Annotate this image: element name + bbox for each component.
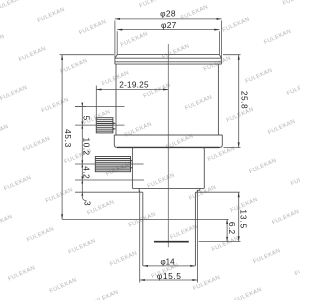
- wire feature line y180: [75, 179, 144, 181]
- svg-text:φ28: φ28: [160, 8, 176, 18]
- dimension phi15.5: [140, 279, 198, 281]
- 45.3 arrows: [61, 55, 63, 60]
- wire lip right: [197, 188, 200, 192]
- wire tube right edge: [194, 192, 196, 266]
- wire cap bottom: [115, 63, 222, 65]
- 25.8 arrows: [238, 55, 240, 60]
- pin1 crimp arrows: [113, 122, 116, 130]
- svg-text:3: 3: [83, 201, 93, 206]
- wire cap chamfer left: [115, 55, 117, 59]
- svg-text:25.8: 25.8: [240, 91, 250, 109]
- transistor pin1 hatched terminal: [96, 118, 113, 133]
- wire flange left: [114, 135, 117, 147]
- svg-text:6.2: 6.2: [227, 222, 237, 235]
- wire lip-bottom left extension: [75, 191, 139, 193]
- svg-text:φ14: φ14: [160, 257, 175, 266]
- svg-text:10.2: 10.2: [81, 138, 91, 156]
- 13.5 arrows: [238, 192, 240, 197]
- wire body left edge: [115, 64, 117, 135]
- svg-text:φ27: φ27: [161, 20, 177, 30]
- wire box left: [132, 147, 134, 188]
- dimension 25.8: [238, 55, 240, 148]
- dimension phi14 line: [143, 265, 196, 267]
- dimension 6.2: [226, 219, 228, 241]
- node pin2 centerline: [75, 163, 144, 165]
- dimension phi28: [115, 18, 222, 20]
- wire box bottom: [132, 187, 204, 189]
- dimension 13.5: [238, 192, 240, 241]
- wire internal line B across tube with extensions: [62, 218, 229, 220]
- phi27 arrows: [117, 29, 122, 31]
- wire cap left edge: [114, 58, 116, 64]
- dimension 45.3: [61, 55, 63, 220]
- dimension phi27: [117, 29, 219, 31]
- wire dark internal bore line: [154, 241, 189, 243]
- wire cap seam2: [115, 61, 222, 63]
- wire flange top: [114, 134, 222, 136]
- wire cap top face: [117, 54, 219, 56]
- phi28 arrows: [115, 18, 120, 20]
- svg-text:4.2: 4.2: [81, 166, 91, 179]
- left stack arrows: [81, 103, 83, 107]
- left stack ticks: [75, 106, 86, 108]
- phi15.5 arrows: [140, 279, 145, 281]
- wire lip bottom left seg: [139, 191, 143, 193]
- wire cap seam1: [115, 57, 221, 59]
- wire cap right edge: [221, 58, 223, 64]
- node pin1 centerline: [75, 124, 125, 126]
- wire box right: [203, 147, 205, 188]
- wire flange right: [220, 135, 223, 147]
- phi14 arrows: [143, 265, 148, 267]
- wire lip left: [138, 188, 140, 192]
- wire body right edge: [217, 64, 219, 135]
- wire tube left edge: [142, 192, 144, 266]
- svg-text:φ15.5: φ15.5: [157, 271, 182, 281]
- svg-text:5: 5: [81, 115, 91, 120]
- dimension 2-19.25: [96, 89, 168, 91]
- svg-text:45.3: 45.3: [63, 129, 73, 148]
- 6.2 arrows: [226, 219, 228, 224]
- svg-text:13.5: 13.5: [238, 209, 248, 229]
- svg-text:2-19.25: 2-19.25: [119, 81, 149, 90]
- 2-19.25 arrows: [96, 89, 101, 91]
- node centerline main: [167, 44, 169, 247]
- wire hidden feature line y106: [75, 106, 125, 108]
- wire cap chamfer right: [219, 55, 221, 59]
- transistor pin2 hatched terminal: [95, 157, 130, 172]
- wire lip bottom right seg + ext for 13.5: [195, 191, 239, 193]
- wire flange bottom: [117, 146, 220, 148]
- pin2 crimp arrows: [131, 160, 133, 169]
- dimension left stack line: [81, 103, 83, 198]
